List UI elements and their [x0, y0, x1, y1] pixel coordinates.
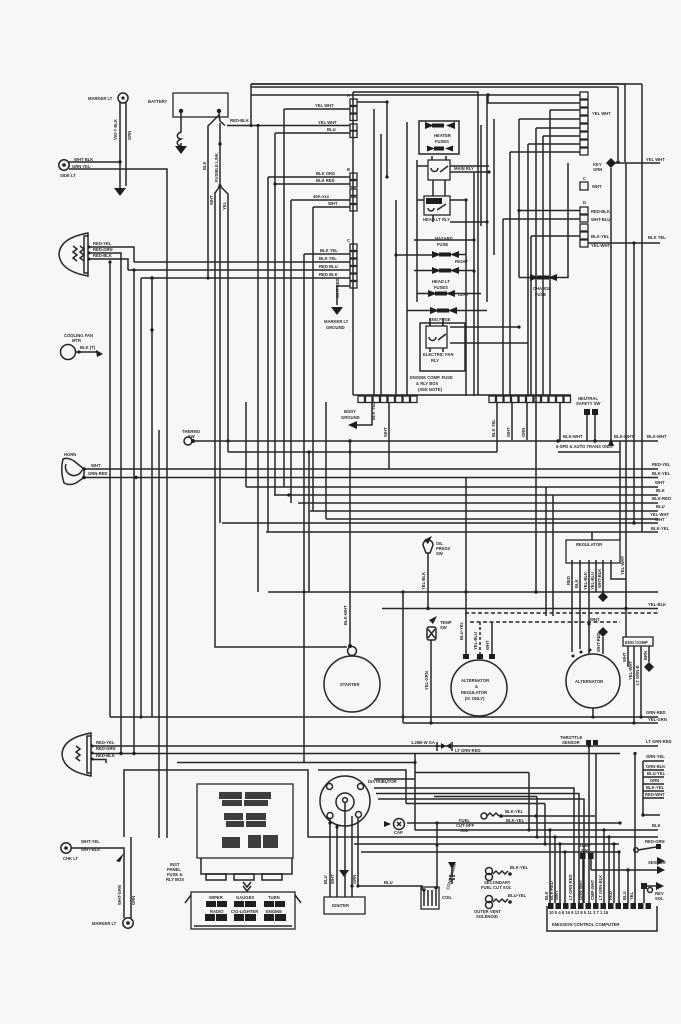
- svg-text:GROUND: GROUND: [326, 325, 345, 330]
- svg-text:WHT: WHT: [590, 617, 600, 622]
- connector B (left edge, 5 squares): [347, 167, 357, 211]
- wire x536 extension to y592: [535, 396, 537, 592]
- svg-text:YEL-BLK: YEL-BLK: [648, 602, 666, 607]
- svg-text:LT GRN-RED: LT GRN-RED: [455, 748, 481, 753]
- svg-text:BODY: BODY: [344, 409, 356, 414]
- wire side-lt to marker junction: [69, 161, 120, 163]
- svg-text:GRN: GRN: [352, 875, 357, 884]
- wire y763 bus: [177, 762, 415, 764]
- wire right vertical x626 key to yel-blk bus: [625, 163, 627, 637]
- wire bus y478 from horn: [82, 477, 658, 479]
- switch OIL PRESS SW: [423, 536, 450, 560]
- alternator ALTERNATOR: [566, 649, 620, 709]
- ground BODY GROUND: [348, 421, 357, 429]
- wire YEL-WHT into A2: [284, 109, 350, 487]
- wire YEL-WHT to right edge: [611, 162, 660, 164]
- wire chk lt to marker: [71, 848, 124, 918]
- svg-text:45A-xxx: 45A-xxx: [313, 194, 330, 199]
- wire y772.5 jog: [374, 773, 529, 780]
- box ENGINE COMP FUSE & RLY BOX outline: [353, 92, 478, 395]
- wire x309 drop: [308, 452, 310, 592]
- switch NEUTRAL SAFETY SW: [576, 396, 600, 441]
- svg-text:CHK LT: CHK LT: [63, 856, 78, 861]
- svg-text:WHT: WHT: [506, 427, 511, 437]
- svg-text:HEAD LT RLY: HEAD LT RLY: [423, 217, 450, 222]
- svg-text:WHT-BLK: WHT-BLK: [597, 569, 602, 588]
- svg-text:RED-YEL: RED-YEL: [96, 740, 115, 745]
- svg-text:YEL WHT: YEL WHT: [592, 111, 611, 116]
- svg-text:GRN-RED: GRN-RED: [88, 471, 108, 476]
- wire x529 drop: [528, 773, 530, 831]
- wire drop to neutral line: [559, 402, 561, 441]
- solenoid SECONDARY FUEL CUT SOL: [481, 865, 529, 890]
- svg-text:BLK-RED: BLK-RED: [652, 496, 671, 501]
- svg-text:MARKER LT: MARKER LT: [88, 96, 113, 101]
- svg-text:LT GRN-BLK: LT GRN-BLK: [598, 875, 603, 900]
- wire y803.5: [406, 804, 545, 845]
- svg-text:CIG-LIGHTER: CIG-LIGHTER: [231, 909, 258, 914]
- wire right vertical x642 from top bus: [641, 84, 643, 532]
- wire ECC feeds from buses: [549, 830, 551, 903]
- svg-text:SENSOR: SENSOR: [562, 740, 580, 745]
- svg-text:GRN: GRN: [521, 428, 526, 437]
- connector strip E (right of box, 8 squares): [580, 92, 611, 155]
- lamp MARKER LT (bottom): [92, 918, 133, 928]
- svg-text:HORN: HORN: [64, 452, 76, 457]
- svg-text:GRN: GRN: [593, 167, 602, 172]
- wire bus y495: [274, 494, 658, 496]
- svg-text:BLU: BLU: [622, 891, 627, 900]
- svg-text:RED-GRN: RED-GRN: [645, 839, 665, 844]
- wire bus y503: [298, 502, 658, 504]
- connector A (left edge, 5 squares): [347, 93, 357, 138]
- svg-text:RED: RED: [566, 576, 571, 585]
- svg-text:HEATER: HEATER: [434, 133, 451, 138]
- lamp headlight upper: [59, 233, 113, 276]
- arrow to lower connector: [243, 882, 251, 891]
- svg-text:ENG FUSE: ENG FUSE: [429, 317, 451, 322]
- svg-text:&: &: [475, 684, 478, 689]
- fuse cluster row3: [222, 835, 278, 848]
- wire BLK-YEL into C1: [304, 254, 350, 763]
- wire marker-lt pair down: [120, 102, 126, 188]
- wire BLK-YEL into C2 (from headlight): [134, 261, 350, 263]
- wire sensor diamond y886: [644, 885, 658, 887]
- motor STARTER: [324, 644, 380, 712]
- svg-text:ENGINE COMP. FUSE: ENGINE COMP. FUSE: [410, 375, 453, 380]
- svg-text:LEFT: LEFT: [458, 292, 469, 297]
- svg-text:ENG COMP: ENG COMP: [625, 640, 648, 645]
- svg-text:BLU: BLU: [656, 504, 665, 509]
- wire E4 from x519: [519, 119, 580, 278]
- wire bus y470 from horn: [82, 468, 658, 470]
- svg-text:RIGHT: RIGHT: [455, 259, 468, 264]
- fuse cluster row2: [224, 813, 266, 827]
- wire vertical x152: [151, 278, 153, 717]
- box INST PANEL FUSE & RLY BOX: [166, 784, 293, 882]
- svg-text:SIDE LT: SIDE LT: [60, 173, 76, 178]
- wire box interior verticals: [374, 95, 494, 396]
- wire dashed IC-only lines: [465, 612, 660, 614]
- svg-text:C: C: [583, 176, 586, 181]
- svg-text:BLK ORG: BLK ORG: [316, 171, 335, 176]
- svg-text:RLY BOX: RLY BOX: [166, 877, 184, 882]
- motor COOLING FAN MTR: [61, 333, 104, 360]
- svg-text:MARKER LT: MARKER LT: [92, 921, 117, 926]
- wire regulator feed stub: [591, 532, 593, 540]
- alternator ALT & REGULATOR: [451, 654, 507, 716]
- wire temp sw down: [430, 648, 432, 723]
- svg-text:BLK-YEL: BLK-YEL: [646, 785, 665, 790]
- svg-text:GAUGES: GAUGES: [236, 895, 254, 900]
- wire regulator leads down: [571, 563, 573, 652]
- svg-text:BLK YEL: BLK YEL: [371, 402, 376, 420]
- fuse group WIPER: [205, 895, 227, 921]
- svg-text:YEL WHT: YEL WHT: [315, 103, 334, 108]
- horn HORN: [62, 452, 108, 485]
- wire charge fuse leads: [519, 163, 568, 278]
- connector bottom strip A (9 squares): [353, 395, 571, 403]
- svg-text:YEL-WHT: YEL-WHT: [620, 555, 625, 575]
- wire right vertical x620 to eng comp conn: [619, 452, 621, 540]
- svg-text:RED-WHT: RED-WHT: [645, 792, 665, 797]
- svg-text:SAFETY SW: SAFETY SW: [576, 401, 600, 406]
- lamp headlight lower: [62, 733, 116, 776]
- bracket trans-only: [558, 441, 620, 452]
- svg-text:(IC ONLY): (IC ONLY): [465, 696, 485, 701]
- wire BLK-YEL body ground drop: [357, 402, 372, 425]
- wire GRN-RED bus y717: [110, 716, 658, 718]
- wire oil sw down to bus: [427, 560, 429, 608]
- svg-text:RED-YEL: RED-YEL: [652, 462, 671, 467]
- svg-text:FUSE: FUSE: [437, 242, 448, 247]
- svg-text:RLY: RLY: [431, 358, 439, 363]
- svg-text:YEL-GRN: YEL-GRN: [424, 671, 429, 690]
- svg-text:GRN-BLK: GRN-BLK: [646, 764, 665, 769]
- svg-text:C: C: [347, 238, 350, 243]
- wire x546 x553 drops: [546, 487, 553, 616]
- wire coil feed vertical: [436, 823, 438, 888]
- switch TEMP SW: [427, 616, 452, 648]
- svg-text:FUSE: FUSE: [535, 292, 546, 297]
- wire BLK-WHT bus y441: [195, 440, 658, 442]
- svg-text:HAZARD: HAZARD: [435, 236, 453, 241]
- wire right column box lines: [643, 761, 664, 815]
- svg-text:BLK-YEL: BLK-YEL: [505, 809, 524, 814]
- wire bus y532: [266, 531, 658, 533]
- svg-text:BATTERY: BATTERY: [148, 99, 168, 104]
- svg-text:ALTERNATOR: ALTERNATOR: [461, 678, 489, 683]
- wire starter feed: [349, 441, 351, 644]
- svg-text:LT GRN-B: LT GRN-B: [635, 665, 640, 685]
- wire WHT drop from strip: [388, 402, 390, 469]
- svg-text:WHT: WHT: [485, 640, 490, 650]
- wire vertical x134 down from y270: [133, 270, 135, 754]
- igniter IGNITER box: [324, 897, 365, 914]
- svg-text:WHT: WHT: [91, 463, 101, 468]
- svg-text:YEL: YEL: [629, 891, 634, 900]
- wire E5-E8 feeds: [536, 128, 580, 396]
- wire U route around inst box: [124, 770, 320, 837]
- svg-text:GRN-YEL: GRN-YEL: [646, 754, 665, 759]
- fuse HEATER FUSES (pair): [419, 121, 459, 154]
- sensor THROTTLE SENSOR: [560, 735, 598, 748]
- ground igniter lead: [339, 870, 349, 877]
- wire relay stubs: [430, 180, 445, 326]
- wire sensor line y870: [591, 869, 662, 871]
- wire reg line to alternator: [588, 624, 590, 654]
- svg-text:WHT: WHT: [655, 517, 665, 522]
- svg-text:LT GRN-RED: LT GRN-RED: [568, 874, 573, 900]
- svg-text:BLK YEL: BLK YEL: [491, 419, 496, 437]
- wire headlight feeds: [90, 247, 134, 262]
- fuse ENG FUSE: [429, 307, 457, 322]
- wire distributor to igniter leads: [330, 816, 358, 897]
- svg-text:GRN: GRN: [127, 131, 132, 140]
- svg-text:REGULATOR: REGULATOR: [461, 690, 487, 695]
- wire into B4: [291, 200, 350, 503]
- wire top outer bus: [251, 84, 625, 162]
- wire bus y524: [222, 522, 658, 524]
- svg-text:CMP-WHT: CMP-WHT: [590, 879, 595, 900]
- svg-text:YEL-GRN: YEL-GRN: [648, 717, 667, 722]
- svg-text:WHT: WHT: [592, 184, 602, 189]
- node key junction: [616, 160, 619, 163]
- svg-text:YEL WHT: YEL WHT: [318, 120, 337, 125]
- connector C (left edge, 6 squares): [347, 238, 357, 288]
- svg-text:REGULATOR: REGULATOR: [576, 542, 602, 547]
- svg-text:BLK-YEL: BLK-YEL: [652, 471, 671, 476]
- node interior junctions: [385, 100, 388, 103]
- svg-text:YEL-BLU: YEL-BLU: [590, 572, 595, 590]
- wire igniter to coil BLU: [358, 886, 422, 890]
- svg-text:RED-BLK: RED-BLK: [591, 209, 610, 214]
- wire WHT-RED from C6 to marker ground: [337, 286, 350, 305]
- svg-text:CAP: CAP: [394, 830, 403, 835]
- wire battery positive to top bus: [219, 84, 642, 126]
- svg-text:GRN-WHT: GRN-WHT: [578, 879, 583, 900]
- wire BLK-YEL right edge: [588, 242, 660, 244]
- wire alternator ground stub: [592, 708, 594, 717]
- svg-text:BLK RED: BLK RED: [316, 178, 335, 183]
- wire YEL-GRN bus y723: [403, 722, 658, 724]
- svg-text:BLK-WHT: BLK-WHT: [647, 434, 667, 439]
- wire bottom feeds into ECC verticals: [589, 746, 596, 903]
- svg-text:IGNITER: IGNITER: [332, 903, 349, 908]
- wire into E2: [488, 95, 580, 103]
- svg-text:B: B: [347, 167, 350, 172]
- svg-text:GRN: GRN: [650, 778, 659, 783]
- capacitor CAP at distributor: [384, 819, 405, 836]
- svg-text:BLK: BLK: [656, 488, 665, 493]
- svg-text:RED-YEL: RED-YEL: [93, 241, 112, 246]
- solenoid FUEL CUT SOL: [456, 809, 595, 833]
- fuse cluster row1: [219, 792, 271, 806]
- wire fusible link left branch: [208, 115, 219, 278]
- svg-text:& RLY BOX: & RLY BOX: [416, 381, 439, 386]
- svg-text:WHT: WHT: [622, 652, 627, 662]
- svg-text:SW: SW: [581, 848, 588, 853]
- svg-text:10 5 4 6 16 9 12 8 5 11 3 7: 10 5 4 6 16 9 12 8 5 11 3 7 1 15: [549, 910, 609, 915]
- svg-text:WHT RED: WHT RED: [335, 278, 340, 298]
- svg-text:STARTER: STARTER: [340, 682, 359, 687]
- wire key down to neutral safety line: [610, 168, 612, 440]
- wire battery negative down with fusible link: [177, 113, 181, 146]
- connector C single square: [580, 182, 588, 190]
- wire E3 from x550: [550, 110, 580, 396]
- svg-text:LT GRN-RED: LT GRN-RED: [646, 739, 672, 744]
- svg-text:BLU-YEL: BLU-YEL: [508, 893, 527, 898]
- svg-text:GRN: GRN: [131, 896, 136, 905]
- wire bottom bus y830 BLK: [415, 829, 658, 831]
- svg-text:CHARGE: CHARGE: [533, 286, 551, 291]
- svg-text:BLU: BLU: [323, 875, 328, 884]
- svg-text:MAIN RLY: MAIN RLY: [454, 166, 474, 171]
- svg-text:BLK-YEL: BLK-YEL: [510, 865, 529, 870]
- svg-text:WHT-BLU: WHT-BLU: [591, 217, 610, 222]
- connector sensor top right: [634, 844, 661, 852]
- connector arrow chk: [116, 853, 124, 862]
- svg-text:MARKER LT: MARKER LT: [324, 319, 349, 324]
- svg-text:BLK (T): BLK (T): [80, 345, 96, 350]
- wire y770 to fuel cut sol: [318, 770, 406, 804]
- svg-text:YEL-BLU: YEL-BLU: [473, 632, 478, 650]
- connector diamond reg: [598, 592, 608, 602]
- svg-text:BLK-YEL: BLK-YEL: [506, 818, 525, 823]
- svg-text:YEL-BLK: YEL-BLK: [583, 572, 588, 590]
- wire bus y487: [246, 486, 658, 488]
- wire right vertical x634: [633, 243, 635, 523]
- wire into E1 from top bus: [251, 94, 580, 96]
- wire D feeds: [519, 210, 580, 212]
- wire fusible link main down: [219, 123, 221, 523]
- svg-text:RADIO: RADIO: [210, 909, 224, 914]
- svg-text:WHT-RED: WHT-RED: [596, 632, 601, 652]
- svg-text:WHT: WHT: [383, 427, 388, 437]
- switch TEMP SW (bottom): [579, 843, 594, 903]
- svg-text:YEL: YEL: [222, 201, 227, 210]
- svg-text:1.25B-W GA: 1.25B-W GA: [411, 740, 435, 745]
- svg-text:YEL WHT: YEL WHT: [646, 157, 665, 162]
- svg-text:BLK: BLK: [574, 579, 579, 588]
- svg-text:EMISSION CONTROL COMPUTER: EMISSION CONTROL COMPUTER: [552, 922, 619, 927]
- svg-text:BLK-YEL: BLK-YEL: [651, 526, 670, 531]
- svg-text:(SEE NOTE): (SEE NOTE): [418, 387, 443, 392]
- svg-text:BLK-WHT: BLK-WHT: [563, 434, 583, 439]
- svg-text:SOL: SOL: [460, 828, 469, 833]
- svg-text:FUEL CUT SOL: FUEL CUT SOL: [481, 885, 512, 890]
- fuse HEAD LT FUSES: [432, 267, 459, 290]
- wire interior horizontals: [357, 102, 489, 311]
- connector diamond alt top: [598, 627, 608, 637]
- svg-text:SW: SW: [436, 551, 443, 556]
- wire bottom bus y844: [354, 843, 619, 845]
- wire vertical x258 down to y592: [257, 126, 259, 593]
- fuse CHARGE FUSE (outside box): [530, 274, 557, 297]
- ECC connector row: [548, 903, 651, 915]
- wire fork to x228: [220, 186, 228, 441]
- svg-text:ELECTRIC FAN: ELECTRIC FAN: [423, 352, 453, 357]
- svg-text:RED-BLK: RED-BLK: [230, 118, 249, 123]
- wire BLK-ORG into B1: [268, 177, 350, 532]
- wire bottom bus y837 RED-GRN: [320, 836, 658, 838]
- box lower fuse connector: [185, 892, 301, 929]
- svg-text:BLK YEL: BLK YEL: [648, 235, 666, 240]
- lamp SIDE LT: [59, 157, 94, 178]
- svg-text:WHT: WHT: [328, 201, 338, 206]
- svg-text:BLK-WHT: BLK-WHT: [343, 605, 348, 625]
- svg-text:GROUND: GROUND: [341, 415, 360, 420]
- wire bus y592: [268, 591, 658, 593]
- wire vertical x159: [158, 430, 160, 838]
- wire RED-BLU into C3: [128, 269, 350, 271]
- wire BLU into A5: [275, 133, 350, 495]
- svg-text:SENSOR: SENSOR: [648, 860, 666, 865]
- svg-text:WHT: WHT: [330, 874, 335, 884]
- distributor DISTRIBUTOR: [320, 776, 397, 826]
- wire bus YEL-BLK y609: [382, 608, 658, 610]
- wire side-lt second, turns down at x167: [69, 169, 167, 838]
- svg-text:WIPER: WIPER: [209, 895, 223, 900]
- wire BLK-RED into B2: [275, 183, 350, 185]
- svg-text:BLU: BLU: [384, 880, 393, 885]
- connector ENG COMP block: [622, 637, 654, 723]
- svg-text:BLK: BLK: [652, 823, 661, 828]
- svg-text:5-SPD & AUTO TRANS ONLY: 5-SPD & AUTO TRANS ONLY: [556, 444, 614, 449]
- svg-text:BLU-YEL: BLU-YEL: [647, 771, 666, 776]
- wire vertical x141 down from y278: [140, 278, 142, 717]
- wire bus y511: [310, 510, 658, 512]
- svg-text:SW: SW: [440, 625, 447, 630]
- svg-text:FUSES: FUSES: [435, 139, 449, 144]
- box EMISSION CONTROL COMPUTER: [547, 906, 657, 931]
- ground MARKER LT GROUND: [331, 307, 343, 315]
- svg-text:WHT-YEL: WHT-YEL: [81, 839, 100, 844]
- wire headlight2 feeds: [93, 745, 658, 747]
- svg-text:WHT: WHT: [209, 195, 214, 205]
- solenoid OUTER VENT SOLENOID: [474, 893, 527, 919]
- wire key feed down: [617, 87, 619, 160]
- svg-text:GRN-RED: GRN-RED: [646, 710, 666, 715]
- svg-text:BLK YEL: BLK YEL: [319, 256, 337, 261]
- svg-text:RED BLK: RED BLK: [319, 272, 338, 277]
- lamp MARKER LT (top): [88, 93, 128, 103]
- wire x403 drop from y592: [402, 592, 404, 723]
- svg-text:BLU: BLU: [327, 127, 336, 132]
- svg-text:MTR: MTR: [72, 338, 81, 343]
- wire y796.5: [434, 797, 537, 838]
- svg-text:VIO-T BLK: VIO-T BLK: [113, 119, 118, 140]
- wire CAP to coil feed y823: [407, 822, 620, 824]
- svg-text:YEL-BLK: YEL-BLK: [421, 572, 426, 590]
- wire x415 coil feed riser: [414, 754, 416, 831]
- svg-text:ENGINE: ENGINE: [266, 909, 282, 914]
- connector KEY (diamond): [606, 158, 616, 168]
- relay HEAD LT RLY: [423, 196, 450, 222]
- wire vertical x110 branch of y262: [109, 262, 111, 717]
- wire y452 branch: [228, 403, 497, 452]
- svg-text:FUSES: FUSES: [434, 285, 448, 290]
- connector D strip 5 squares: [580, 200, 611, 248]
- svg-text:SOL: SOL: [655, 896, 664, 901]
- svg-text:BRN: BRN: [643, 651, 648, 660]
- ground battery: [175, 146, 187, 154]
- fuse left headlight: [428, 290, 469, 297]
- wire altreg up feeds: [465, 478, 467, 654]
- svg-text:YEL-WHT: YEL-WHT: [628, 660, 633, 680]
- svg-text:HEAD LT: HEAD LT: [432, 279, 450, 284]
- wire bus y519: [326, 518, 658, 520]
